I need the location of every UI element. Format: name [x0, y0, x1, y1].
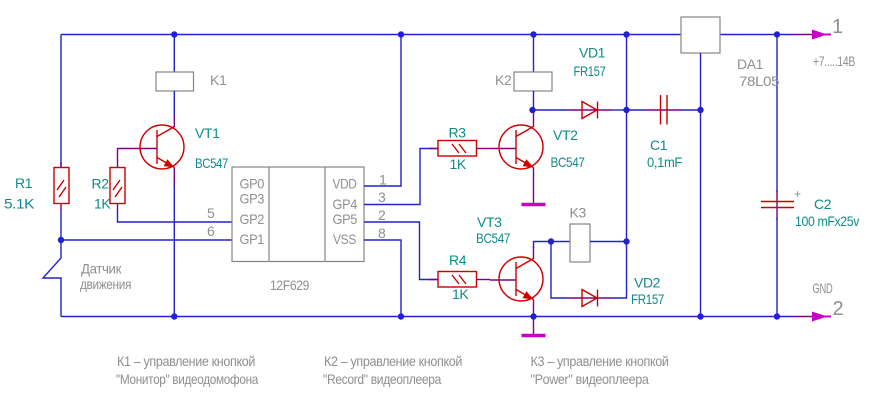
svg-text:движения: движения	[80, 276, 131, 292]
svg-text:K3: K3	[570, 205, 587, 221]
svg-text:K2: K2	[495, 72, 512, 88]
wire VD2 branch left	[551, 242, 567, 299]
svg-text:6: 6	[207, 223, 215, 239]
resistor R2	[110, 168, 125, 204]
output arrow 2 GND	[792, 312, 831, 322]
svg-text:1K: 1K	[450, 156, 467, 172]
svg-text:K1: K1	[210, 72, 227, 88]
node C1 right	[697, 107, 703, 113]
wire VDD pin1	[364, 35, 401, 187]
svg-text:100 mFx25v: 100 mFx25v	[795, 213, 859, 229]
svg-text:"Power" видеоплеера: "Power" видеоплеера	[531, 371, 650, 387]
svg-text:8: 8	[378, 225, 386, 241]
svg-text:+7.....14В: +7.....14В	[813, 53, 855, 69]
svg-text:BC547: BC547	[476, 230, 511, 246]
wire bottom rail	[61, 316, 792, 318]
wire VT3 emitter to ground	[533, 317, 535, 335]
svg-text:1K: 1K	[94, 196, 111, 212]
svg-text:GP2: GP2	[240, 211, 265, 227]
svg-text:C2: C2	[814, 196, 832, 212]
svg-text:К3 – управление кнопкой: К3 – управление кнопкой	[531, 353, 669, 369]
wire GP4 pin3	[364, 149, 438, 205]
wire VSS pin8	[364, 240, 401, 317]
wire R2 bottom lead	[117, 204, 119, 213]
voltage regulator DA1	[681, 17, 720, 317]
resistor R1	[54, 162, 69, 204]
svg-text:"Record" видеоплеера: "Record" видеоплеера	[323, 371, 442, 387]
svg-text:+: +	[794, 187, 801, 201]
node K2 bottom junction	[529, 107, 535, 113]
wire R2 base link to VT1	[118, 149, 158, 168]
svg-text:R4: R4	[449, 252, 467, 268]
wire GP5 pin2	[364, 222, 438, 280]
svg-text:"Монитор" видеодомофона: "Монитор" видеодомофона	[116, 371, 259, 387]
transistor VT1	[140, 116, 184, 186]
svg-text:GP0: GP0	[240, 176, 265, 192]
ground below VT2	[522, 203, 546, 207]
svg-text:GP3: GP3	[240, 191, 265, 207]
node C2 top rail	[774, 31, 780, 37]
relay K3	[551, 224, 627, 262]
node at R1 bottom junction	[58, 237, 64, 243]
svg-text:VDD: VDD	[333, 176, 357, 192]
wire vertical column x=626.5	[626, 35, 628, 242]
wire VT3 collector up	[534, 242, 552, 249]
wire C2 bottom	[776, 218, 778, 317]
wire R3 to VT2 base	[490, 148, 516, 150]
relay K1	[156, 35, 194, 117]
svg-text:0,1mF: 0,1mF	[647, 154, 682, 170]
node 626 VD1 row	[623, 107, 629, 113]
capacitor C2	[761, 190, 794, 220]
node K2 top	[530, 31, 536, 37]
svg-text:DA1: DA1	[737, 56, 764, 72]
svg-text:2: 2	[378, 207, 386, 223]
svg-text:1: 1	[379, 172, 387, 188]
svg-text:5: 5	[207, 205, 215, 221]
IC U1 12F629	[232, 167, 364, 262]
wire top rail right of regulator	[720, 34, 792, 36]
wire sensor break zigzag	[43, 240, 61, 317]
svg-text:GND: GND	[813, 280, 833, 296]
svg-text:Датчик: Датчик	[81, 261, 122, 277]
node 626 top rail	[623, 31, 629, 37]
wire VD2 branch right	[612, 242, 627, 299]
svg-text:К1 – управление кнопкой: К1 – управление кнопкой	[117, 353, 255, 369]
svg-text:VT3: VT3	[477, 214, 502, 230]
node C2 bottom rail	[774, 313, 780, 319]
wire VT1 emitter to bottom rail	[173, 184, 175, 317]
wire R4 to VT3 base	[490, 279, 516, 281]
wire GP1 row 6	[61, 239, 232, 241]
wire R1 bottom lead	[60, 204, 62, 213]
capacitor C1	[627, 95, 702, 125]
svg-text:BC547: BC547	[195, 155, 228, 171]
svg-text:78L05: 78L05	[739, 73, 780, 89]
ground below VT3	[522, 334, 546, 338]
node VSS at bottom rail	[398, 313, 404, 319]
transistor VT2	[499, 112, 543, 203]
diode VD1	[533, 102, 627, 119]
svg-text:VT2: VT2	[553, 127, 578, 143]
svg-text:1K: 1K	[452, 286, 469, 302]
node DA1 gnd at bottom rail	[697, 313, 703, 319]
transistor VT3	[499, 246, 543, 317]
svg-text:R2: R2	[92, 176, 110, 192]
svg-text:VD2: VD2	[634, 275, 661, 291]
node K1 top	[171, 31, 177, 37]
svg-text:12F629: 12F629	[270, 277, 310, 293]
svg-text:R3: R3	[449, 125, 467, 141]
svg-text:2: 2	[833, 298, 844, 320]
output arrow 1	[792, 30, 831, 40]
node K3 right	[623, 238, 629, 244]
node VT1 emitter at bottom rail	[171, 313, 177, 319]
svg-text:C1: C1	[650, 137, 668, 153]
svg-text:3: 3	[378, 189, 386, 205]
svg-text:GP1: GP1	[240, 231, 265, 247]
svg-text:VSS: VSS	[333, 231, 356, 247]
svg-text:К2 – управление кнопкой: К2 – управление кнопкой	[324, 353, 462, 369]
svg-text:1: 1	[832, 16, 843, 38]
diode VD2	[567, 290, 612, 307]
svg-text:GP5: GP5	[333, 211, 358, 227]
relay K2	[514, 35, 552, 111]
svg-text:FR157: FR157	[574, 63, 606, 79]
node K3 left	[548, 238, 554, 244]
resistor R4	[429, 272, 490, 288]
resistor R3	[429, 141, 490, 157]
svg-text:BC547: BC547	[551, 154, 586, 170]
svg-text:R1: R1	[15, 175, 33, 191]
node VDD at top rail	[398, 31, 404, 37]
wire C2 column	[776, 35, 778, 193]
svg-text:GP4: GP4	[333, 196, 358, 212]
svg-text:5.1K: 5.1K	[4, 196, 35, 212]
svg-text:FR157: FR157	[631, 291, 664, 307]
node VT3 emitter at bottom rail	[530, 313, 536, 319]
wire left vertical	[60, 35, 62, 168]
svg-text:VT1: VT1	[195, 125, 220, 141]
svg-text:VD1: VD1	[579, 45, 606, 61]
wire top rail	[61, 34, 681, 36]
